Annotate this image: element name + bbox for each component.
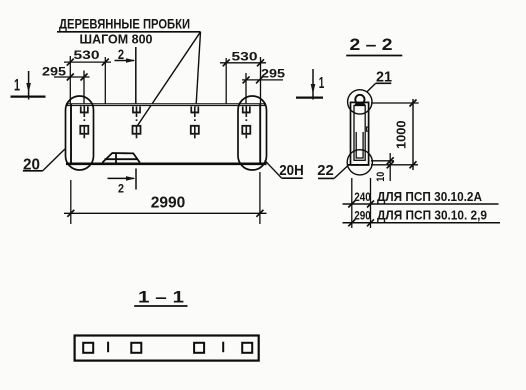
plug head ring in section xyxy=(355,95,364,104)
leader to plug column 3 xyxy=(196,32,201,107)
section 2-2 top detail circle xyxy=(348,90,372,114)
svg-text:ДЛЯ ПСП 30.10. 2,9: ДЛЯ ПСП 30.10. 2,9 xyxy=(377,208,487,222)
panel top edge outer line xyxy=(66,103,266,106)
dim 530 left: tick right xyxy=(102,59,109,66)
plug column 2 lower square xyxy=(132,125,142,138)
svg-text:240: 240 xyxy=(354,190,371,204)
panel right edge xyxy=(259,104,261,164)
row 240 tick left xyxy=(348,201,355,208)
section mark 1 left: base line xyxy=(11,95,46,97)
dim 295 right: extension line at plug 4 xyxy=(245,73,247,107)
panel top edge inner line xyxy=(68,103,264,106)
svg-text:295: 295 xyxy=(42,67,67,79)
dim 295 left: extension line at plug 1 xyxy=(83,71,85,108)
drain recess trapezoid xyxy=(102,153,139,163)
dim 1000: dimension line xyxy=(412,99,414,170)
dim 530 right: tick left xyxy=(223,59,230,66)
svg-text:530: 530 xyxy=(74,50,100,62)
section mark 1 left: arrow shaft xyxy=(28,71,30,100)
section 1-1 strip outline xyxy=(75,336,259,361)
svg-text:ДЛЯ ПСП 30.10.2А: ДЛЯ ПСП 30.10.2А xyxy=(377,190,482,204)
dim 2990: tick right xyxy=(256,210,263,217)
section member right notch xyxy=(367,127,369,131)
plug column 4 top plug xyxy=(242,106,251,117)
section mark 2 bottom: cut line xyxy=(135,169,137,190)
plug column 3 top plug xyxy=(190,106,199,117)
dim 295 left: tick left xyxy=(67,74,74,81)
svg-text:1000: 1000 xyxy=(394,121,408,150)
plug column 2 top plug xyxy=(132,106,141,117)
right end stadium xyxy=(238,96,267,170)
section member outer outline xyxy=(351,102,369,164)
svg-text:ШАГОМ 800: ШАГОМ 800 xyxy=(80,32,153,47)
plug column 2 dot xyxy=(136,119,138,121)
section mark 1 right: arrowhead xyxy=(311,84,316,94)
dim 295 right: tick right xyxy=(256,76,263,83)
svg-text:530: 530 xyxy=(232,52,258,64)
strip square 3 xyxy=(194,343,204,353)
dim 530 left: dimension line xyxy=(64,61,111,63)
svg-text:22: 22 xyxy=(317,163,334,179)
dim 295 right: tick left xyxy=(243,76,250,83)
dim 2990: tick left xyxy=(67,210,74,217)
row 290 tick left xyxy=(348,219,355,226)
dim 2990: right extension line xyxy=(259,172,261,224)
row 240 tick right xyxy=(367,201,374,208)
svg-text:10: 10 xyxy=(375,172,387,182)
svg-text:2990: 2990 xyxy=(151,195,186,212)
label 22: underline xyxy=(318,177,334,179)
dim 1000: top extension line xyxy=(371,102,419,104)
strip square 4 xyxy=(242,343,252,353)
strip dash 1 xyxy=(107,342,109,353)
label 20: leader xyxy=(43,149,65,171)
section mark 2 bottom: arrow shaft xyxy=(108,177,135,179)
strip square 1 xyxy=(83,343,93,353)
section 1-1 title underline xyxy=(134,305,187,307)
section mark 1 right: arrow shaft xyxy=(312,69,314,100)
svg-text:295: 295 xyxy=(261,69,286,81)
panel bottom edge xyxy=(66,163,267,166)
dim 2990: left extension line xyxy=(70,180,72,224)
svg-text:ДЕРЕВЯННЫЕ ПРОБКИ: ДЕРЕВЯННЫЕ ПРОБКИ xyxy=(59,16,190,31)
dim 2990: dimension line xyxy=(64,212,267,214)
plug head shoulders xyxy=(355,103,365,105)
note underline xyxy=(57,31,201,33)
svg-text:2: 2 xyxy=(118,183,124,195)
dim 295 right: dimension line xyxy=(242,79,283,81)
plug column 4 lower square xyxy=(241,125,251,138)
plug column 1 dot xyxy=(84,119,86,121)
row 240 underline xyxy=(343,203,499,205)
dim 530 left: extension line right xyxy=(104,57,106,104)
dim 530 left: tick left xyxy=(67,59,74,66)
section member bottom U insert xyxy=(356,132,363,158)
label 22: leader xyxy=(334,166,347,178)
section mark 2 top: cut line xyxy=(135,47,137,104)
section mark 2 top: arrow shaft xyxy=(115,60,135,62)
label 20H: underline xyxy=(282,177,303,179)
strip dash 2 xyxy=(222,342,224,353)
dim 530 right: extension line at panel right edge xyxy=(260,57,262,104)
dim 10: tick bottom xyxy=(387,161,394,168)
section mark 1 left: arrowhead xyxy=(26,83,31,93)
dim 10: dimension line xyxy=(389,153,391,181)
label 20: underline xyxy=(23,170,43,172)
row 290 tick right xyxy=(367,219,374,226)
dim 295 left: dimension line xyxy=(54,76,90,78)
dim 1000: bottom extension line xyxy=(371,164,418,166)
svg-text:1 – 1: 1 – 1 xyxy=(138,288,184,306)
section mark 2 top: arrowhead xyxy=(126,58,135,63)
left end stadium xyxy=(66,96,94,170)
plug column 4 dot xyxy=(246,119,248,121)
dim 530 right: tick right xyxy=(257,59,264,66)
plug column 1 top plug xyxy=(80,106,89,117)
svg-text:1: 1 xyxy=(319,75,325,92)
label 21: underline xyxy=(376,82,392,84)
svg-text:2: 2 xyxy=(118,47,124,62)
strip square 2 xyxy=(131,343,141,353)
svg-text:2 – 2: 2 – 2 xyxy=(350,36,393,54)
table extension line right xyxy=(370,178,372,228)
section member inner outline xyxy=(354,106,365,161)
dim 1000: tick bottom xyxy=(410,161,417,168)
dim 10: middle extension line xyxy=(371,160,394,162)
dim 1000: tick top xyxy=(410,100,417,107)
svg-text:20Н: 20Н xyxy=(279,163,304,179)
dim 295 left: tick right xyxy=(81,74,88,81)
label 20H: leader xyxy=(265,160,282,178)
table extension line left xyxy=(351,178,353,228)
section member bottom flange xyxy=(347,164,370,166)
svg-text:290: 290 xyxy=(354,208,371,222)
svg-text:1: 1 xyxy=(14,76,20,95)
leader to plug column 2 lower square xyxy=(137,32,201,127)
row 290 underline xyxy=(343,222,501,224)
label 21: leader xyxy=(367,83,376,91)
section 2-2 bottom detail circle xyxy=(347,150,372,175)
dim 530 right: dimension line xyxy=(220,62,266,64)
section mark 2 bottom: arrowhead xyxy=(126,176,135,181)
dim 10: tick top xyxy=(387,157,394,164)
dim 530 left: extension line at panel left edge xyxy=(69,56,71,104)
section mark 1 right: base line xyxy=(296,96,323,98)
dim 530 right: extension line left xyxy=(225,58,227,104)
section 2-2 title underline xyxy=(346,55,402,57)
plug column 3 dot xyxy=(194,119,196,121)
plug column 1 lower square xyxy=(79,125,89,138)
panel left edge xyxy=(70,104,72,164)
plug column 3 lower square xyxy=(190,125,200,138)
